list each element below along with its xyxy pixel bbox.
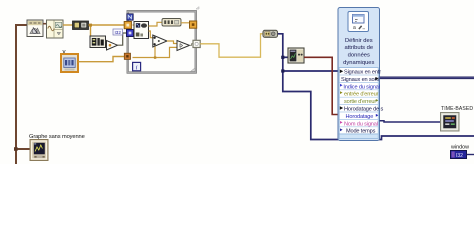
convert-to-dynamic node U7	[263, 30, 278, 37]
row 9: Mode temps	[340, 128, 376, 134]
wire: subVI to collector box	[43, 23, 47, 25]
wire: maroon waveform from U8 to express VI	[304, 57, 339, 114]
row 7: Horodatage	[346, 114, 379, 120]
histogram icon U4	[90, 36, 106, 48]
svg-text:Horodatage de s: Horodatage de s	[344, 107, 383, 113]
svg-text:I32: I32	[115, 30, 122, 35]
row 3: Indice du signal	[340, 84, 380, 91]
svg-text:Nom du signal: Nom du signal	[344, 121, 378, 127]
svg-text:Indice du signal: Indice du signal	[343, 84, 379, 90]
svg-text:Horodatage: Horodatage	[346, 114, 374, 120]
svg-text:TIME-BASED: TIME-BASED	[441, 106, 473, 112]
row 6: Horodatage de signaux	[340, 106, 384, 112]
tunnel T3 (orange, lower left)	[124, 53, 130, 59]
numeric array constant y	[61, 50, 78, 73]
row 5: sortie d'erreur	[344, 99, 378, 105]
wire: U5 lower output down to triangle Q2	[149, 31, 153, 38]
svg-text:données: données	[348, 52, 370, 58]
svg-text:entrée d'erreur: entrée d'erreur	[344, 92, 379, 98]
window constant	[450, 145, 474, 160]
wire: Signaux en sortie output (thick dynamic data)	[380, 77, 474, 80]
convert-from-dynamic node U8	[288, 48, 304, 63]
express VI: Définir des attributs de données dynamiques	[338, 8, 380, 141]
loop count terminal N	[127, 14, 133, 20]
for-loop frame	[127, 7, 199, 74]
svg-text:Signaux en sorti: Signaux en sorti	[341, 77, 379, 83]
inner analysis VI U5	[134, 22, 149, 39]
wire: T3 across loop to Q3 lower input, branch up to Q2	[133, 47, 178, 59]
row 1: Signaux en entrée	[340, 70, 381, 76]
wire: U5 top output to waveform box	[149, 22, 163, 26]
tunnel T2 (blue, left)	[127, 30, 134, 37]
wire: Q3 apex to tunnel T5	[190, 44, 194, 46]
svg-text:window: window	[450, 145, 469, 151]
svg-text:a: a	[353, 25, 356, 31]
wire: Q2 apex to Q3 upper input	[167, 41, 177, 44]
wire: collector to dark node	[63, 24, 73, 26]
wire: Horodatage output to TIME-BASED	[380, 121, 441, 122]
svg-text:attributs de: attributs de	[344, 45, 373, 51]
wire: y constant to loop tunnel T3	[78, 57, 127, 62]
collector/measurement box U2 (two-row node with sine)	[47, 20, 64, 38]
iteration terminal i	[133, 62, 141, 71]
tunnel T1 (orange, left)	[124, 22, 131, 29]
wire: waveform box to tunnel T4	[181, 23, 191, 25]
wire: triangle to I32 conversion into blue tunnel T2	[118, 33, 127, 45]
wire: dynamic data trunk (navy) with branches	[278, 34, 474, 140]
svg-text:Définir des: Définir des	[345, 38, 373, 44]
operator triangle Q2 (divide)	[153, 35, 167, 47]
wire: dark node to loop tunnel T1, with branch down	[89, 24, 127, 41]
svg-text:dynamiques: dynamiques	[343, 60, 374, 66]
wire: brown waveform wire from sound VI down to graph terminal	[14, 25, 31, 164]
wire: T2 to inner VI	[134, 32, 135, 34]
operator triangle Q1	[107, 41, 118, 51]
tunnel T4 (orange, right top, unwired outside)	[190, 21, 197, 28]
row 2: Signaux en sortie	[341, 77, 379, 83]
svg-text:I32: I32	[456, 153, 463, 159]
row 4: entrée d'erreur	[340, 91, 379, 98]
wire: T1 to inner VI	[133, 24, 135, 26]
express VI parameter rows	[339, 68, 378, 134]
express VI footer strip	[339, 134, 378, 139]
waveform graph terminal	[30, 140, 48, 161]
row 8: Nom du signal	[340, 121, 378, 127]
svg-text:Signaux en entr: Signaux en entr	[344, 70, 381, 76]
I32 conversion label	[113, 29, 123, 35]
tunnel T5 (output, hollow)	[193, 40, 200, 47]
wire: T5 output across to dynamic-data converter	[200, 34, 263, 57]
waveform/numeric box U6	[162, 19, 181, 27]
TIME-BASED constant	[441, 106, 474, 131]
dark measurement node U3	[73, 21, 89, 30]
subVI icon U1 (sound acquire)	[27, 20, 43, 37]
svg-text:sortie d'erreur: sortie d'erreur	[344, 99, 376, 105]
operator triangle Q3	[177, 41, 190, 51]
